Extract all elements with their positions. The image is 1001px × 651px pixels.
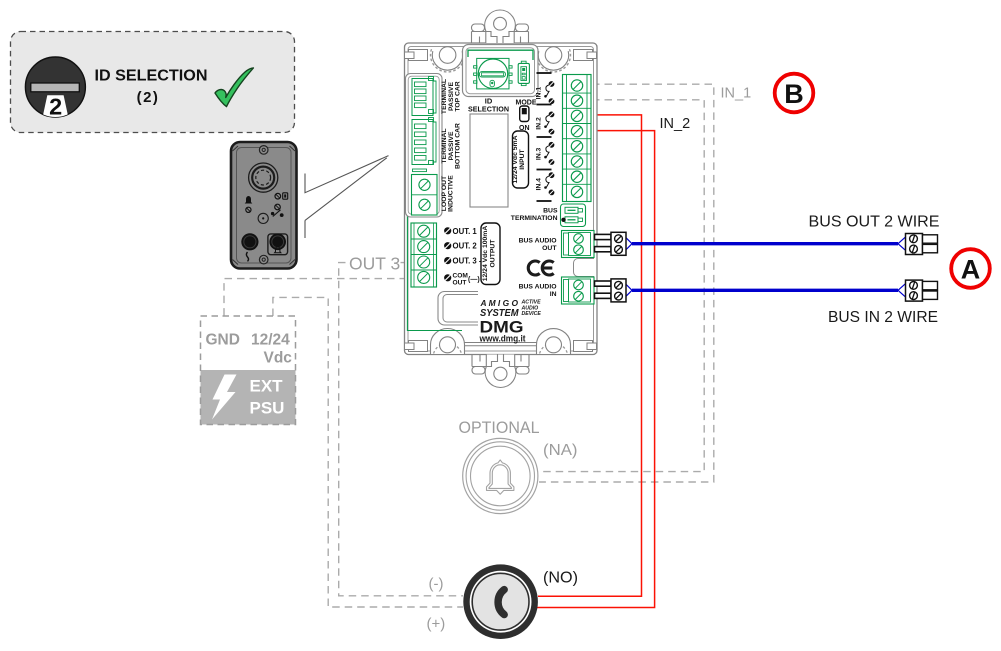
bottom edge strip between ears xyxy=(465,343,537,346)
svg-text:OUT: OUT xyxy=(542,245,557,252)
bottom car passive terminal connector xyxy=(412,118,436,172)
bus audio in terminal xyxy=(562,277,595,304)
svg-text:(+): (+) xyxy=(427,616,446,633)
svg-text:IN.3: IN.3 xyxy=(536,147,543,160)
svg-text:IN.4: IN.4 xyxy=(536,178,543,191)
label ID SELECTION (2) xyxy=(95,68,208,107)
label COM OUT xyxy=(444,273,480,287)
optional bell push button (NA) xyxy=(463,438,538,513)
svg-text:TERMINATION: TERMINATION xyxy=(511,215,558,222)
mode switch icon xyxy=(520,106,529,122)
wire GND (gray dashed, COM OUT to PSU) xyxy=(224,279,407,316)
label BUS IN 2 WIRE xyxy=(828,309,938,326)
left connector well xyxy=(406,74,443,218)
svg-text:IN_2: IN_2 xyxy=(660,116,691,132)
blue bus wire OUT xyxy=(626,237,905,250)
intercom top screw xyxy=(259,146,268,155)
svg-text:DEVICE: DEVICE xyxy=(522,311,542,317)
case notch between audio connectors xyxy=(574,259,595,277)
svg-text:PSU: PSU xyxy=(250,399,285,418)
svg-text:BUS IN 2 WIRE: BUS IN 2 WIRE xyxy=(828,309,938,326)
svg-text:A: A xyxy=(961,254,981,284)
svg-text:PASSIVE: PASSIVE xyxy=(448,131,455,160)
callout circle B xyxy=(775,74,814,113)
label BUS OUT 2 WIRE xyxy=(809,214,940,231)
svg-text:12/24 Vdc 5mA: 12/24 Vdc 5mA xyxy=(512,135,519,183)
svg-text:OUT: OUT xyxy=(453,280,467,287)
rotary dial icon showing position 2 xyxy=(25,57,85,120)
label BUS AUDIO OUT xyxy=(519,238,558,253)
group divider bars xyxy=(537,73,552,201)
intercom bottom screw xyxy=(259,255,268,264)
label OUT.1 xyxy=(444,227,477,236)
svg-text:BUS OUT 2 WIRE: BUS OUT 2 WIRE xyxy=(809,214,940,231)
bottom-left mounting ear xyxy=(431,329,465,355)
bus in far-end plug xyxy=(906,280,938,301)
wire IN_2 a (red, terminal 3 to phone button) xyxy=(538,115,642,596)
label MODE xyxy=(516,98,537,107)
svg-text:EXT: EXT xyxy=(250,377,284,396)
label OUT.2 xyxy=(444,242,477,251)
svg-text:GND: GND xyxy=(206,332,240,349)
svg-text:Vdc: Vdc xyxy=(264,350,293,367)
CE mark xyxy=(528,261,553,275)
svg-text:OUT. 1: OUT. 1 xyxy=(453,227,478,236)
label (NA) xyxy=(543,442,578,459)
brand text AMIGO SYSTEM xyxy=(480,298,542,319)
green check mark xyxy=(215,68,253,107)
svg-text:12/24 Vdc 100mA: 12/24 Vdc 100mA xyxy=(482,226,489,282)
top-left clamp tab xyxy=(405,50,428,61)
svg-text:IN.2: IN.2 xyxy=(536,117,543,130)
PSU label EXT PSU xyxy=(250,377,285,418)
svg-text:INDUCTIVE: INDUCTIVE xyxy=(448,175,455,212)
input switch symbol IN.3 xyxy=(536,142,555,165)
intercom mic hole xyxy=(258,213,268,223)
green board edge xyxy=(407,74,462,331)
label (+) xyxy=(427,616,446,633)
external PSU box xyxy=(201,316,296,425)
svg-text:(NO): (NO) xyxy=(543,570,578,587)
label TOP CAR PASSIVE TERMINAL xyxy=(441,79,461,114)
svg-text:TERMINAL: TERMINAL xyxy=(441,79,448,114)
ID selection module frame xyxy=(463,45,539,97)
wire IN_2 b (red, terminal 4 to phone button) xyxy=(537,131,655,608)
svg-text:OPTIONAL: OPTIONAL xyxy=(459,419,540,437)
svg-text:BUS AUDIO: BUS AUDIO xyxy=(519,238,557,245)
bottom-right clamp tab xyxy=(574,341,597,352)
output terminal block OUT1-COM xyxy=(411,223,437,287)
DMG logo xyxy=(479,318,526,344)
blue bus wire IN xyxy=(626,284,905,297)
intercom right bell button xyxy=(268,234,288,255)
wire IN_1 a (gray dashed, terminal 1 to bell button) xyxy=(539,84,714,482)
label ID SELECTION on board xyxy=(468,97,509,114)
intercom small adjust icons xyxy=(271,193,288,217)
svg-text:TOP CAR: TOP CAR xyxy=(455,81,462,111)
intercom speaker grille xyxy=(249,163,278,192)
svg-text:IN: IN xyxy=(550,291,557,298)
svg-text:(2): (2) xyxy=(137,89,160,106)
svg-text:OUT 3: OUT 3 xyxy=(349,254,400,274)
input terminal strip IN1-IN4 xyxy=(563,75,592,202)
svg-text:LOOP OUT: LOOP OUT xyxy=(441,175,448,211)
bottom-left clamp tab xyxy=(405,341,428,352)
svg-text:BUS AUDIO: BUS AUDIO xyxy=(519,284,557,291)
top-left mounting ear xyxy=(431,47,465,72)
top mounting tab xyxy=(472,10,529,43)
phone push button (NO) xyxy=(463,564,538,639)
svg-text:SELECTION: SELECTION xyxy=(468,105,509,114)
input switch symbol IN.2 xyxy=(536,112,555,135)
svg-text:BUS: BUS xyxy=(543,208,558,215)
svg-text:BOTTOM CAR: BOTTOM CAR xyxy=(455,123,462,169)
svg-text:IN.1: IN.1 xyxy=(536,87,543,100)
PSU lightning bolt xyxy=(212,375,237,420)
bus termination jumper block xyxy=(561,204,586,227)
svg-text:OUT. 2: OUT. 2 xyxy=(453,242,478,251)
intercom left call button xyxy=(241,233,258,261)
svg-text:12/24: 12/24 xyxy=(251,332,290,349)
INPUT rating label xyxy=(512,131,529,188)
PSU labels GND 12/24 Vdc xyxy=(206,332,293,367)
label ON xyxy=(519,125,530,132)
wire IN_1 b (gray dashed, terminal 2 to bell button) xyxy=(540,100,704,472)
svg-text:(-): (-) xyxy=(429,576,444,593)
svg-text:(—): (—) xyxy=(468,277,480,284)
svg-text:ID SELECTION: ID SELECTION xyxy=(95,68,208,85)
svg-text:IN_1: IN_1 xyxy=(721,86,752,102)
svg-text:INPUT: INPUT xyxy=(519,148,526,169)
svg-text:OUTPUT: OUTPUT xyxy=(489,239,496,268)
label (-) xyxy=(429,576,444,593)
bottom-left corner cutout xyxy=(438,292,478,326)
wire 12/24 Vdc (gray dashed, PSU to phone button plus) xyxy=(273,297,463,607)
svg-text:www.dmg.it: www.dmg.it xyxy=(479,334,526,344)
top-right mounting ear xyxy=(537,47,571,72)
central relay outline xyxy=(470,114,508,207)
label OPTIONAL xyxy=(459,419,540,437)
svg-text:2: 2 xyxy=(49,94,62,120)
bus audio out terminal xyxy=(562,231,595,258)
svg-text:B: B xyxy=(784,79,804,109)
label BUS TERMINATION xyxy=(511,208,558,223)
PCB device case body xyxy=(405,43,598,355)
bottom-right mounting ear xyxy=(537,329,571,354)
wire OUT 3 (gray dashed, OUT.3 to phone button minus) xyxy=(339,263,463,596)
intercom bell pictogram xyxy=(245,196,253,212)
bus out far-end plug xyxy=(906,234,938,255)
top-right clamp tab xyxy=(574,50,597,61)
bus audio out mating plug xyxy=(595,232,627,255)
ID selection info box xyxy=(11,32,295,133)
leader lines from intercom to board xyxy=(305,156,389,238)
label IN_2 xyxy=(660,116,691,132)
label INDUCTIVE LOOP OUT xyxy=(441,175,455,212)
inductive loop out terminal xyxy=(412,175,438,216)
input switch symbol IN.4 xyxy=(536,172,555,195)
label IN_1 xyxy=(721,86,752,102)
label OUT.3 xyxy=(444,257,482,266)
bus audio in mating plug xyxy=(595,279,627,302)
svg-text:PASSIVE: PASSIVE xyxy=(448,82,455,111)
svg-text:TERMINAL: TERMINAL xyxy=(441,128,448,163)
label BOTTOM CAR PASSIVE TERMINAL xyxy=(441,123,461,169)
label (NO) xyxy=(543,570,578,587)
top car passive terminal connector xyxy=(412,77,436,116)
svg-text:(NA): (NA) xyxy=(543,442,578,459)
label OUT 3 xyxy=(348,253,401,274)
callout circle A xyxy=(951,249,990,288)
intercom device panel xyxy=(231,142,297,269)
label BUS AUDIO IN xyxy=(519,284,557,299)
input switch symbol IN.1 xyxy=(536,81,555,104)
bottom mounting tab xyxy=(472,355,529,388)
svg-text:OUT. 3 -: OUT. 3 - xyxy=(453,257,482,266)
OUTPUT rating label xyxy=(481,223,500,285)
mode jumper component xyxy=(518,61,529,85)
svg-text:MODE: MODE xyxy=(516,98,537,107)
svg-text:A M I G O: A M I G O xyxy=(480,298,519,308)
rotary ID selector component xyxy=(474,58,512,89)
